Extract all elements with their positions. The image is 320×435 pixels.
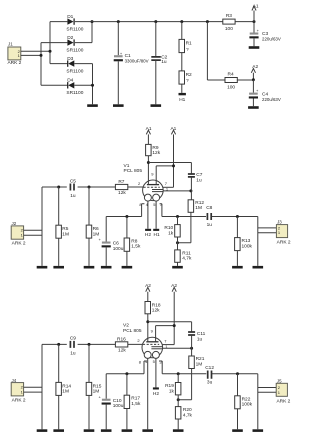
node pin1 junction [40, 54, 43, 57]
svg-text:H2: H2 [153, 391, 159, 397]
resistor R11 4,7k [175, 237, 192, 266]
svg-text:C6: C6 [113, 241, 119, 247]
terminal H2 V1 [145, 229, 151, 231]
svg-text:R13: R13 [242, 238, 251, 244]
connector J3 ARK 2 [276, 225, 290, 246]
ground C4 [248, 106, 259, 109]
capacitor C7 1u [188, 172, 203, 200]
node R19-R20-R21 junction [177, 398, 180, 401]
diode D1 [66, 14, 83, 33]
ground R17 [122, 429, 133, 432]
svg-text:R10: R10 [164, 225, 173, 231]
svg-text:C11: C11 [197, 331, 206, 337]
tube V1 screen [152, 189, 163, 191]
svg-text:100k: 100k [242, 243, 253, 249]
svg-text:?: ? [186, 47, 189, 53]
svg-text:12k: 12k [152, 308, 160, 314]
wire J2 pin2 [24, 229, 42, 231]
svg-text:R20: R20 [183, 407, 192, 413]
svg-text:D1: D1 [67, 14, 73, 20]
terminal H1 [179, 93, 186, 103]
svg-text:H2: H2 [145, 232, 151, 238]
node R9 anode junction [147, 161, 150, 164]
wire J4 pin2 [24, 386, 42, 388]
diode D4 [66, 78, 83, 96]
ground C3 [249, 46, 260, 49]
svg-text:R1: R1 [186, 40, 192, 46]
resistor R22 100k [235, 374, 253, 430]
svg-text:D3: D3 [67, 56, 73, 62]
node R22 tap [236, 372, 239, 375]
tube V2 cathode [151, 348, 162, 350]
svg-text:1u: 1u [196, 177, 202, 183]
tube V1 pin numbers [138, 172, 169, 208]
node D4 junction [91, 84, 94, 87]
ground R20 [173, 429, 184, 432]
svg-text:R22: R22 [242, 396, 251, 402]
wire D4 left lead [41, 84, 68, 86]
svg-text:ARK 2: ARK 2 [277, 239, 291, 245]
ground bridge [87, 104, 98, 107]
svg-text:1M: 1M [62, 389, 69, 395]
wire D1 left lead [50, 21, 67, 23]
resistor R14 1M [56, 344, 72, 429]
wire V1 heater leads [148, 201, 156, 229]
svg-text:R12: R12 [195, 200, 204, 206]
wire V1 screen lead [163, 186, 174, 188]
svg-text:12k: 12k [118, 190, 126, 196]
node R3 branch [206, 20, 209, 23]
ground R8 [122, 266, 133, 269]
wire J1 pin2 [21, 50, 50, 52]
resistor R9 12k [146, 144, 161, 162]
resistor R7 12k [115, 179, 127, 196]
svg-text:100u: 100u [113, 246, 124, 252]
tube V2 screen [151, 346, 162, 348]
ground R14 [53, 429, 64, 432]
ground C10 [101, 429, 112, 432]
wire D4 right lead [74, 84, 92, 86]
ground C1 [113, 104, 124, 107]
wire J5 rail [258, 374, 276, 430]
wire R1-R2 [181, 53, 183, 71]
node A1 rail anode branch [172, 164, 175, 167]
node R13 tap [236, 215, 239, 218]
svg-text:J1: J1 [8, 42, 13, 47]
svg-text:1k: 1k [168, 230, 174, 236]
svg-text:PCL 805: PCL 805 [123, 328, 142, 334]
svg-text:H1: H1 [154, 232, 160, 238]
svg-text:C7: C7 [196, 172, 202, 178]
svg-text:C5: C5 [70, 178, 76, 184]
svg-text:R15: R15 [93, 383, 102, 389]
terminal H2 V2 [153, 387, 159, 396]
svg-text:1,5k: 1,5k [131, 244, 141, 250]
node R6 tap [88, 186, 91, 189]
node R10-R11-R12 junction [176, 241, 179, 244]
wire R2 to H1 [181, 84, 183, 93]
supply arrow A1 [252, 4, 259, 22]
resistor R6 1M [86, 187, 99, 266]
ground R5 [53, 266, 64, 269]
capacitor C1 3300uF/80V [114, 22, 149, 105]
svg-text:C8: C8 [206, 205, 212, 211]
svg-text:R4: R4 [228, 71, 234, 77]
svg-text:R16: R16 [117, 337, 126, 343]
node A2 C4 junction [252, 78, 255, 81]
resistor R21 1M [178, 356, 205, 400]
svg-text:R9: R9 [152, 145, 158, 151]
resistor R3 100 [223, 13, 235, 32]
capacitor C8 1u [206, 205, 212, 228]
wire input rail [41, 187, 43, 266]
node pin2 junction [49, 50, 52, 53]
connector J4 ARK 2 [11, 383, 26, 404]
node R19 tap [177, 372, 180, 375]
svg-text:SR1100: SR1100 [66, 90, 83, 96]
diode D3 [66, 56, 83, 75]
svg-text:SR1100: SR1100 [66, 47, 83, 53]
wire V2 pentode cathode [159, 361, 258, 374]
svg-text:220u/63V: 220u/63V [262, 37, 281, 42]
supply arrow A2 stage2 second [171, 283, 177, 345]
svg-text:100: 100 [225, 26, 233, 32]
tube V1 grid [144, 186, 160, 188]
svg-text:R8: R8 [131, 239, 137, 245]
ground C2 [151, 104, 162, 107]
node R5 tap [57, 186, 60, 189]
svg-text:H1: H1 [179, 97, 185, 103]
svg-text:R6: R6 [93, 226, 99, 232]
wire V2 heater lead left to ground [147, 358, 149, 429]
svg-text:100k: 100k [242, 402, 253, 408]
svg-text:A1: A1 [253, 4, 259, 10]
node C2 tap [154, 20, 157, 23]
svg-text:C9: C9 [70, 336, 76, 342]
diode D2 [66, 35, 83, 54]
wire V2 pentode anode lead [156, 326, 175, 342]
node R18 anode junction [146, 320, 149, 323]
wire input rail stage2 [41, 344, 43, 429]
svg-text:D2: D2 [67, 35, 73, 41]
terminal H1 V1 [153, 229, 159, 231]
wire V1 g1 lead [163, 190, 191, 192]
wire anode to C7 [148, 163, 191, 175]
wire V2 anode lead [147, 322, 149, 342]
capacitor C10 100u [98, 394, 123, 429]
svg-text:1M: 1M [195, 205, 202, 211]
resistor R8 1,5k [124, 217, 141, 266]
node A2 rail anode branch [173, 324, 176, 327]
capacitor C12 1u [205, 365, 214, 385]
wire top B+ rail [75, 21, 254, 23]
wire V1 pentode cathode [160, 204, 258, 217]
tube V2 PCL805 label [123, 323, 142, 334]
wire J2 pin1 [24, 234, 42, 236]
node A1 C3 junction [253, 20, 256, 23]
node g1-C7 junction [189, 189, 192, 192]
wire AC rail left2 [40, 43, 42, 86]
tube V2 grid [143, 343, 159, 345]
svg-text:ARK 2: ARK 2 [12, 240, 26, 246]
svg-text:1u: 1u [197, 336, 203, 342]
tube V2 envelope [142, 337, 163, 358]
resistor R2 [179, 71, 192, 84]
capacitor C2 1u [151, 22, 167, 105]
svg-text:1k: 1k [169, 388, 175, 394]
svg-text:12k: 12k [152, 150, 160, 156]
resistor R15 1M [86, 344, 102, 429]
resistor R17 1,5k [124, 374, 141, 430]
wire V2 heater lead right [155, 358, 157, 387]
wire input top run [42, 186, 143, 188]
resistor R10 1k [164, 217, 180, 238]
ground R6 [84, 266, 95, 269]
svg-text:A2: A2 [171, 283, 177, 289]
svg-text:220u/63V: 220u/63V [262, 97, 281, 102]
svg-text:?: ? [186, 78, 189, 84]
svg-text:12k: 12k [118, 348, 126, 354]
ground J5 [253, 429, 264, 432]
svg-text:R21: R21 [196, 356, 205, 362]
capacitor C3 220u/63V [249, 22, 280, 47]
resistor R16 12k [115, 337, 127, 354]
wire J3 rail [258, 217, 277, 266]
wire D2 right lead [75, 42, 92, 44]
tube V1 PCL805 label [124, 163, 143, 174]
wire J4 pin1 [24, 391, 42, 393]
connector J5 ARK 2 [276, 383, 290, 404]
wire D3 left lead [50, 63, 68, 65]
node R15 tap [88, 343, 91, 346]
svg-text:J3: J3 [277, 220, 282, 225]
ground R15 [84, 429, 95, 432]
svg-text:ARK 2: ARK 2 [12, 398, 26, 404]
svg-text:C12: C12 [205, 365, 214, 371]
wire R4 right [237, 79, 253, 81]
node C1 tap [117, 20, 120, 23]
svg-text:100u: 100u [113, 403, 124, 409]
ground R13 [232, 266, 243, 269]
wire V1 pentode anode lead [156, 166, 173, 185]
ground C6 [101, 266, 112, 269]
svg-text:V1: V1 [124, 163, 130, 169]
connector J1 ARK 2 [7, 47, 21, 66]
svg-text:1,5k: 1,5k [131, 401, 141, 407]
labels H2 H1 [145, 232, 160, 238]
wire anode to C11 [148, 322, 192, 332]
capacitor C5 1u [70, 178, 76, 199]
wire J1 pin1 [21, 54, 41, 56]
capacitor C11 1u [188, 331, 206, 356]
svg-text:3u: 3u [207, 380, 213, 386]
ground J4 [37, 429, 48, 432]
svg-text:3300uF/80V: 3300uF/80V [125, 59, 149, 64]
svg-text:100: 100 [227, 85, 235, 91]
svg-text:R7: R7 [118, 179, 124, 185]
wire AC rail left [49, 22, 51, 64]
node D1 junction [91, 20, 94, 23]
supply arrow A2 stage2 [145, 283, 151, 301]
svg-text:ARK 2: ARK 2 [7, 60, 21, 66]
node g1-C11 junction [190, 347, 193, 350]
node R17 tap [125, 372, 128, 375]
tube V2 pin numbers [137, 329, 168, 365]
svg-text:1u: 1u [207, 222, 213, 228]
wire V2 g1 lead [163, 347, 192, 349]
ground J2 [37, 266, 48, 269]
svg-text:SR1100: SR1100 [66, 26, 83, 32]
resistor R12 1M [178, 200, 205, 243]
tube V1 cathode [152, 191, 163, 193]
svg-text:A2: A2 [145, 283, 151, 289]
wire rail to R4 [207, 22, 225, 80]
node R8 tap [125, 215, 128, 218]
svg-text:A2: A2 [252, 64, 258, 70]
svg-text:C10: C10 [113, 398, 122, 404]
svg-text:V2: V2 [123, 323, 129, 329]
svg-text:A1: A1 [146, 126, 152, 132]
wire D3 right lead [74, 63, 92, 65]
svg-text:R18: R18 [152, 303, 161, 309]
node R10 tap [176, 215, 179, 218]
connector J2 ARK 2 [11, 226, 26, 247]
resistor R19 1k [165, 374, 181, 395]
tube V2 anode [146, 341, 158, 343]
capacitor C9 1u [70, 336, 76, 357]
node R14 tap [57, 343, 60, 346]
svg-text:R3: R3 [226, 13, 232, 19]
wire D1-D2 cathode rail [91, 22, 93, 43]
svg-text:SR1100: SR1100 [66, 68, 83, 74]
svg-text:A1: A1 [170, 126, 176, 132]
svg-text:1u: 1u [161, 59, 167, 65]
svg-text:J5: J5 [277, 378, 282, 383]
svg-text:1u: 1u [70, 193, 76, 199]
resistor R13 100k [235, 217, 253, 266]
svg-text:1u: 1u [70, 351, 76, 357]
svg-text:R2: R2 [186, 72, 192, 78]
ground heater V2 [142, 429, 153, 432]
wire input top run stage2 [42, 343, 143, 345]
wire V1 triode cathode [106, 204, 144, 242]
svg-text:1M: 1M [62, 231, 69, 237]
svg-text:4,7k: 4,7k [183, 412, 193, 418]
svg-text:1M: 1M [196, 361, 203, 367]
supply arrow A1 stage1 second [170, 126, 176, 188]
wire D3-D4 anode rail to ground [92, 64, 94, 105]
ground R22 [232, 429, 243, 432]
ground R11 [172, 266, 183, 269]
wire D2 left lead [41, 42, 67, 44]
svg-text:ARK 2: ARK 2 [276, 399, 290, 405]
resistor R18 12k [145, 302, 161, 322]
ground J3 [253, 266, 264, 269]
svg-text:R5: R5 [62, 226, 68, 232]
resistor R4 100 [225, 71, 237, 90]
node R1 tap [180, 20, 183, 23]
resistor R5 1M [56, 187, 69, 266]
tube V1 envelope [143, 180, 164, 201]
resistor R20 4,7k [175, 395, 192, 429]
svg-text:R14: R14 [62, 383, 71, 389]
svg-text:PCL 805: PCL 805 [124, 168, 143, 174]
svg-text:R17: R17 [131, 396, 140, 402]
wire V2 triode cathode [106, 361, 147, 399]
svg-text:D4: D4 [67, 78, 73, 84]
supply arrow A2 [251, 64, 258, 80]
svg-text:R19: R19 [165, 383, 174, 389]
wire V2 screen lead [162, 344, 174, 346]
svg-text:R11: R11 [182, 250, 191, 256]
svg-text:4,7k: 4,7k [182, 256, 192, 262]
capacitor C4 220u/63V [249, 80, 281, 106]
supply arrow A1 stage1 [146, 126, 152, 145]
tube V1 anode [147, 184, 159, 186]
capacitor C6 100u [98, 237, 123, 266]
wire V1 anode lead [147, 163, 149, 185]
resistor R1 [179, 22, 192, 53]
